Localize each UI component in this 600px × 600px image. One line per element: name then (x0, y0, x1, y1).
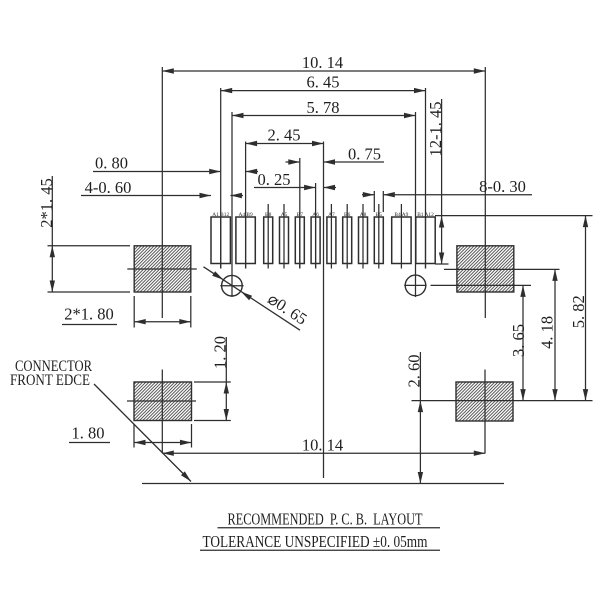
dimension 4-0.60 (wide pad width, outside arrows) (81, 193, 243, 198)
hatched pad bottom-right (456, 382, 513, 421)
dimension 0.80 (pad pitch A1-A4, outside arrows) (93, 169, 258, 174)
svg-text:5. 78: 5. 78 (307, 98, 340, 117)
underline note 1 (218, 527, 441, 529)
extension line right 10.14 (x=485.5, through top-right pad) (484, 67, 486, 318)
extension lines pad B5 edges (8-0.30) (374, 191, 383, 212)
dimension 6.45 (221, 88, 426, 93)
svg-text:A7: A7 (328, 212, 335, 218)
dimension 5.82 (pad row top to bottom pad center) (583, 216, 588, 401)
signal pad A4 B9 (236, 217, 255, 269)
svg-text:2*1. 80: 2*1. 80 (64, 305, 114, 324)
hatched pad bottom-left vertical centerline (161, 370, 163, 454)
svg-text:8-0. 30: 8-0. 30 (479, 177, 526, 196)
dimension 8-0.30 (narrow pad width, outside arrows) (362, 192, 532, 197)
svg-text:10. 14: 10. 14 (302, 436, 343, 455)
signal pad A7 (327, 204, 336, 269)
svg-text:A6: A6 (312, 212, 319, 218)
svg-text:B6: B6 (344, 212, 351, 218)
dimension 2.60 (bottom pad center to front edge) (418, 352, 423, 484)
underline 2*1.80 (62, 324, 117, 326)
dimension 10.14 top (162, 68, 485, 73)
dimension 2*1.80 (top side pads width) (134, 319, 191, 324)
svg-text:3. 65: 3. 65 (509, 324, 528, 357)
hatched pad bottom-left (134, 382, 192, 421)
leader line Ø0.65 (204, 267, 301, 330)
hole left Ø0.65 (220, 275, 243, 296)
extension lines bottom-left pad sides (1.80) (134, 424, 192, 448)
extension line left 10.14 (x=162, through top-left pad) (161, 67, 163, 318)
svg-text:0. 80: 0. 80 (95, 154, 128, 173)
hatched pad top-right horizontal centerline (4.18 extension) (444, 268, 560, 270)
signal pad B8 (264, 204, 273, 269)
dimension 10.14 bottom (162, 451, 485, 456)
dimension 4.18 (top pad center to bottom pad center) (552, 269, 557, 400)
extension line pad B1/A12 center (6.45 right) (425, 88, 427, 269)
extension line pad A4/B9 center (2.45 left) (245, 142, 247, 269)
svg-text:10. 14: 10. 14 (302, 53, 343, 72)
extension line pad A1/B12 center (6.45 left) (220, 88, 222, 269)
extension line pad B7 center (0.75) (299, 158, 301, 269)
signal pad B4 A9 (392, 204, 411, 269)
dimension 0.25 (pad A6 center to centerline, outside arrows) (254, 185, 336, 190)
underline 1.80 (69, 442, 110, 444)
dimension 12-1.45 (pad height) (439, 99, 444, 264)
svg-text:12-1. 45: 12-1. 45 (426, 102, 445, 157)
dimension 3.65 (hole center to bottom pad center) (520, 285, 525, 400)
svg-text:6. 45: 6. 45 (307, 73, 340, 92)
svg-text:RECOMMENDED P. C. B. LAYOUT: RECOMMENDED P. C. B. LAYOUT (228, 510, 423, 529)
hatched pad bottom-right vertical centerline (484, 370, 486, 454)
svg-text:2*1. 45: 2*1. 45 (37, 178, 56, 228)
dimension 1.80 (bottom pad width) (134, 440, 192, 445)
signal pad B6 (343, 204, 352, 269)
extension line bottom pads center row (2.60/3.65/4.18/5.82) (412, 400, 593, 402)
extension line pad row top right (5.82 / 12-1.45) (435, 215, 593, 217)
svg-text:1. 80: 1. 80 (72, 424, 105, 443)
extension lines top-left pad sides (2*1.80) (134, 296, 191, 328)
extension line right hole to 3.65 dim (431, 284, 532, 286)
extension line pad A6 center (0.25) (315, 183, 317, 269)
hole right Ø0.65 (404, 275, 426, 296)
signal pad B5 (374, 204, 383, 269)
signal pad A6 (311, 217, 320, 269)
svg-text:4. 18: 4. 18 (538, 316, 557, 349)
connector front edge line (142, 483, 504, 485)
svg-text:A4 B9: A4 B9 (238, 212, 253, 218)
svg-text:B5: B5 (376, 212, 383, 218)
extension line left hole center (5.78 left) (231, 112, 233, 297)
svg-text:B1 A12: B1 A12 (417, 212, 434, 218)
svg-text:4-0. 60: 4-0. 60 (85, 178, 132, 197)
svg-text:5. 82: 5. 82 (569, 295, 588, 328)
signal pad A5 (280, 204, 289, 269)
hatched pad top-right (457, 246, 514, 292)
svg-text:B7: B7 (297, 212, 304, 218)
extension line right hole center (5.78 right) (415, 112, 417, 297)
svg-text:A1 B12: A1 B12 (212, 212, 229, 218)
signal pad B1 A12 (416, 217, 435, 269)
svg-text:2. 45: 2. 45 (268, 126, 301, 145)
hatched pad bottom-left horizontal centerline (127, 400, 196, 402)
svg-text:B8: B8 (265, 212, 272, 218)
dimension 1.20 (bottom pads height) (224, 337, 229, 421)
svg-text:1. 20: 1. 20 (211, 336, 230, 369)
svg-text:0. 25: 0. 25 (258, 170, 291, 189)
signal pad B7 (295, 217, 304, 269)
dimension 0.75 (pad B7 center to centerline, outside arrows) (286, 159, 385, 164)
drawing vertical centerline (323, 142, 325, 479)
svg-text:TOLERANCE UNSPECIFIED ±0. 05mm: TOLERANCE UNSPECIFIED ±0. 05mm (203, 532, 428, 551)
signal pad A1 B12 (211, 217, 230, 269)
svg-text:0. 75: 0. 75 (348, 145, 381, 164)
signal pad A8 (359, 204, 368, 269)
underline note 2 (200, 549, 440, 551)
leader line connector front edge (94, 384, 191, 482)
dimension 2*1.45 (top pads height) (50, 176, 55, 292)
hatched pad top-left (134, 246, 191, 292)
svg-text:A5: A5 (281, 212, 288, 218)
svg-text:B4 A9: B4 A9 (394, 212, 408, 218)
svg-text:A8: A8 (360, 212, 367, 218)
dimension 5.78 (232, 113, 416, 118)
extension lines bottom-left pad top/bottom (1.20) (194, 382, 231, 421)
hatched pad top-left horizontal centerline (127, 268, 197, 270)
dimension 2.45 (246, 141, 324, 146)
svg-text:2. 60: 2. 60 (405, 355, 424, 388)
svg-text:FRONT EDCE: FRONT EDCE (10, 372, 90, 389)
extension lines top-left pad top/bottom (2*1.45) (48, 246, 131, 292)
extension line pad B1/A12 bottom (12-1.45) (435, 263, 449, 265)
